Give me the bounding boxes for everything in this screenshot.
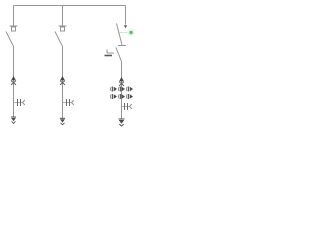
feeder arrow (down), branch 1 [11,117,16,123]
breaker Q3 moving contact arrowhead (down) [124,25,127,28]
disconnector Q1 blade (open) [6,32,13,46]
arrow symbol (up) with cross tail, branch 2 [60,76,65,85]
drawout contact symbol, branch 1 [14,99,25,106]
wire: branch 2 drop from bus [62,6,64,26]
drawout contact symbol, branch 2 [63,99,74,106]
earthing contact: horizontal line [107,52,114,54]
disconnector Q1 contact square [12,27,16,31]
wire: branch 3 vertical [121,62,123,120]
wire: branch 1 vertical [13,46,15,118]
arrow row 1 (three right-pointing contacts) [111,87,133,92]
breaker Q3 bottom terminal tick [118,45,126,47]
disconnector Q2 fixed contact tick [59,25,67,27]
disconnector Q1 fixed contact tick [10,25,18,27]
feeder arrow (down), branch 2 [60,118,65,125]
wire: branch 3 drop from bus (right corner) [125,6,127,25]
wire: branch 1 drop from bus [13,6,15,26]
wire: branch 2 vertical [62,46,64,119]
earthing switch blade [116,48,122,62]
wire: top bus horizontal [14,5,126,7]
disconnector Q2 contact square [61,27,65,31]
breaker Q3 blade (open) [117,24,123,46]
green status indicator lamp [127,29,135,37]
arrow symbol (up) with cross tail, branch 3 [119,77,124,86]
disconnector Q2 blade (open) [55,32,62,46]
green status link line [120,32,129,34]
earthing contact: stem [106,50,108,54]
arrow symbol (up) with cross tail, branch 1 [11,76,16,85]
feeder arrow (down), branch 3 [119,119,125,126]
background [0,0,139,133]
earth bar (thick) [105,55,113,57]
arrow row 2 (three right-pointing contacts) [111,94,133,99]
drawout contact symbol, branch 3 [122,103,132,110]
